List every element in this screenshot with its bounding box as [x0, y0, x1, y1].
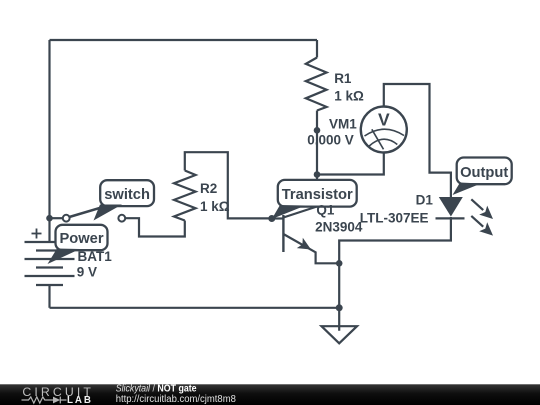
- svg-text:Transistor: Transistor: [282, 187, 353, 203]
- svg-text:Output: Output: [460, 165, 508, 181]
- battery BAT1 plates: [25, 242, 75, 285]
- footer logo mini schematic: [22, 397, 67, 404]
- transistor Q1 collector diagonal: [283, 207, 317, 218]
- wire R2 top loop to base: [185, 152, 272, 218]
- svg-text:R2: R2: [200, 181, 217, 196]
- voltmeter VM1 needle: [372, 129, 384, 149]
- wire battery bottom stub: [48, 285, 50, 308]
- svg-text:9 V: 9 V: [77, 265, 97, 280]
- wire emitter to junction: [316, 252, 340, 264]
- svg-text:1 kΩ: 1 kΩ: [334, 89, 364, 104]
- wire bottom horizontal: [50, 307, 340, 309]
- svg-text:LAB: LAB: [67, 395, 91, 405]
- svg-text:Power: Power: [59, 231, 103, 247]
- junction dot node A (left wire / switch): [46, 215, 53, 222]
- junction dot node B (VM1 probe): [314, 127, 321, 134]
- svg-text:http://circuitlab.com/cjmt8m8: http://circuitlab.com/cjmt8m8: [116, 394, 237, 405]
- svg-text:switch: switch: [104, 187, 150, 203]
- svg-text:D1: D1: [416, 193, 434, 208]
- transistor Q1 emitter diagonal: [283, 234, 315, 252]
- label callout Transistor: [272, 180, 357, 219]
- wire VM1 top branch: [384, 84, 451, 198]
- svg-text:1 kΩ: 1 kΩ: [200, 199, 230, 214]
- resistor R1: [306, 58, 327, 111]
- wire junction down to ground: [338, 263, 340, 331]
- label callout switch: [94, 180, 155, 220]
- ground symbol: [322, 326, 358, 343]
- switch SW1 arm: [69, 203, 117, 217]
- svg-text:R1: R1: [334, 71, 352, 86]
- wire top horizontal: [50, 39, 318, 41]
- LED D1 light arrow 2: [471, 216, 483, 227]
- wire LED cathode down and left: [339, 217, 451, 263]
- svg-text:LTL-307EE: LTL-307EE: [360, 211, 429, 226]
- voltmeter VM1 circle: [361, 107, 407, 153]
- svg-text:VM1: VM1: [329, 117, 357, 132]
- resistor R2: [174, 171, 196, 221]
- svg-text:2N3904: 2N3904: [315, 219, 363, 234]
- wire switch branch stub: [50, 217, 63, 219]
- wire left vertical: [48, 40, 50, 242]
- battery BAT1 plus sign: [32, 229, 42, 239]
- footer logo diode triangle: [53, 397, 60, 404]
- wire switch right to R2 bottom: [125, 218, 185, 236]
- transistor Q1 emitter arrow: [297, 238, 311, 250]
- svg-text:V: V: [378, 110, 390, 130]
- switch SW1 terminal circle left: [63, 215, 70, 222]
- junction dot node D (base): [268, 215, 275, 222]
- svg-text:0.000 V: 0.000 V: [307, 132, 354, 147]
- svg-text:BAT1: BAT1: [78, 249, 113, 264]
- voltmeter VM1 scale arcs: [365, 129, 405, 149]
- LED D1 triangle: [439, 197, 463, 217]
- footer bar: [0, 384, 540, 405]
- LED D1 light arrow 1: [471, 199, 483, 210]
- junction dot node C (collector / VM1): [314, 171, 321, 178]
- svg-text:Q1: Q1: [316, 203, 335, 218]
- junction dot node F (ground): [336, 304, 343, 311]
- transistor Q1 base bar: [282, 215, 284, 252]
- label callout Power: [48, 225, 108, 264]
- wire R1 bottom to collector: [316, 111, 318, 207]
- label callout Output: [453, 158, 512, 196]
- wire base stub: [272, 217, 284, 219]
- wire VM1 bottom branch: [317, 153, 384, 175]
- switch SW1 terminal circle right: [118, 215, 125, 222]
- LED D1 cathode bar: [436, 217, 465, 219]
- wire R1 top stub: [316, 40, 318, 58]
- component text labels: [77, 71, 434, 280]
- junction dot node E (emitter / LED return): [336, 260, 343, 267]
